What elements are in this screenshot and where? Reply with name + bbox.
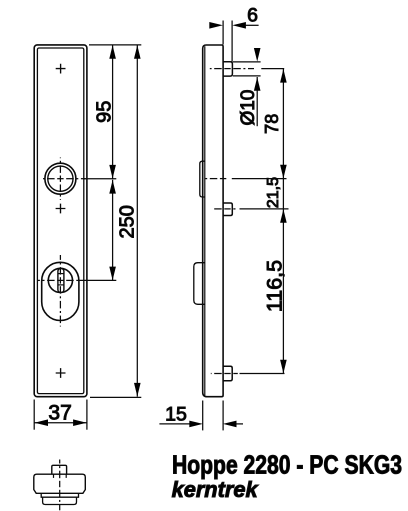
front view plate outer outline [34,45,87,397]
top boss centerline [228,68,231,70]
svg-text:Ø10: Ø10 [238,90,259,126]
handle hole outer circle [45,163,76,194]
svg-text:95: 95 [93,101,115,123]
extension line width right [86,400,88,430]
handle hole inner circle [48,166,73,191]
svg-text:78: 78 [262,114,282,134]
top screw hole cross [56,64,66,74]
extension line cylinder center [79,279,117,281]
cap centerline [59,484,61,487]
cylinder screw extension line [240,208,289,210]
cylinder cover bulge [194,263,205,305]
dimension 116,5 arrow [280,360,287,374]
handle centerline side [223,178,226,180]
keyway tick upper [58,273,63,275]
handle hole horizontal centerline [60,178,63,180]
dimension 37 line [34,422,87,424]
dimension 15 extension line right [222,401,224,431]
cylinder core circle [48,268,72,292]
svg-text:15: 15 [165,404,187,426]
bottom boss centerline [228,373,231,375]
dimension diameter 10 extension tick top [233,61,261,63]
cylinder keyway capsule [58,268,64,292]
dimension 250 line [136,45,138,397]
cap bottom ring [43,497,77,504]
handle hub bulge [200,161,205,197]
extension line top edge [89,44,141,46]
keyway tick lower [58,284,63,286]
dimension 6 arrows and line [209,22,223,29]
svg-text:6: 6 [247,4,258,26]
cap middle ring [41,493,78,497]
cap stem [52,465,67,474]
svg-text:21,5: 21,5 [265,177,282,208]
svg-text:Hoppe 2280 - PC SKG3: Hoppe 2280 - PC SKG3 [172,449,402,479]
extension line width left [33,400,35,430]
svg-text:250: 250 [116,205,138,238]
cylinder screw boss centerline [228,208,231,210]
side view inner face line [204,46,206,395]
cylinder cutout stadium [42,262,79,320]
cylinder horizontal centerline [60,279,63,281]
dimension 15 extension line left [202,401,204,431]
top boss extension line [261,68,284,70]
side view plate body [203,45,223,397]
dimension 78 line [282,69,284,374]
cylinder screw boss [223,203,232,216]
cylinder vertical centerline [59,280,61,283]
dimension 95 line [112,45,114,179]
dimension 6 extension line right [231,21,233,62]
dimension 21,5 arrow [280,209,287,223]
bottom boss extension line [240,373,285,375]
front view plate inner outline [37,48,83,394]
svg-text:116,5: 116,5 [263,260,287,312]
dimension 15 line left tail [159,423,190,425]
bottom screw hole cross [56,368,66,378]
dimension handle-cylinder line [112,180,114,280]
cylinder screw cross [56,204,66,214]
extension line handle center [84,178,116,180]
top screw boss [223,62,232,76]
dimension 6 extension line left [222,21,224,45]
cap stem hidden continuation [53,474,55,478]
extension line bottom edge [90,396,141,398]
dimension diameter 10 upper arrow [254,48,261,62]
svg-text:kerntrek: kerntrek [172,477,260,502]
bottom screw boss [223,366,232,381]
dimension 15 line right tail [236,423,243,425]
dimension diameter 10 extension tick bottom [233,75,261,77]
svg-text:37: 37 [48,401,71,424]
cap body [34,474,86,493]
handle extension line side [232,178,287,180]
handle hole vertical centerline [59,179,61,182]
dimension diameter 10 lower line [256,77,258,126]
